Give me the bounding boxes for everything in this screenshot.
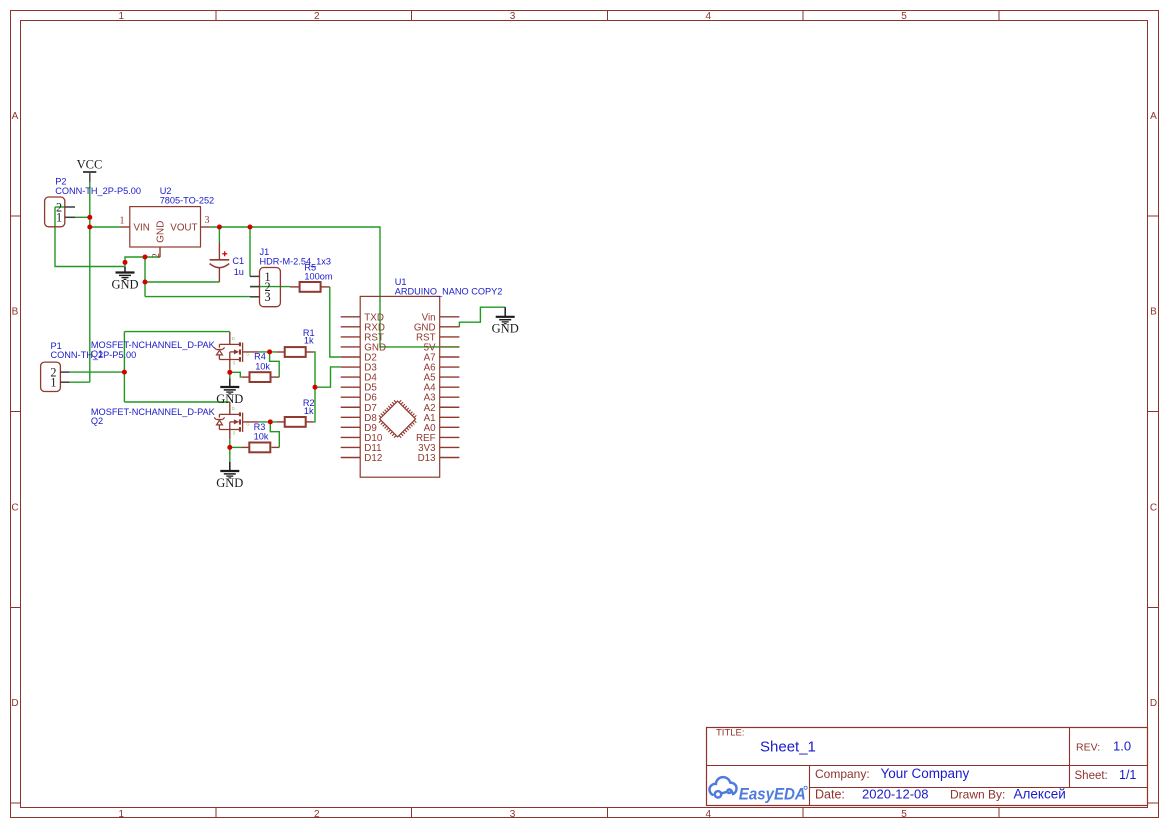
svg-text:VOUT: VOUT xyxy=(170,223,197,234)
svg-text:5: 5 xyxy=(901,11,907,22)
svg-text:D13: D13 xyxy=(418,453,437,464)
svg-text:3: 3 xyxy=(205,215,210,226)
svg-text:G: G xyxy=(246,421,249,426)
svg-text:GND: GND xyxy=(216,476,243,490)
svg-text:10k: 10k xyxy=(255,361,270,371)
svg-text:D12: D12 xyxy=(364,453,382,464)
svg-text:Sheet_1: Sheet_1 xyxy=(760,738,816,755)
svg-text:MOSFET-NCHANNEL_D-PAK: MOSFET-NCHANNEL_D-PAK xyxy=(91,340,216,350)
svg-text:R4: R4 xyxy=(254,352,266,362)
svg-text:S: S xyxy=(233,361,236,366)
svg-text:3: 3 xyxy=(510,809,516,820)
svg-text:CONN-TH_2P-P5.00: CONN-TH_2P-P5.00 xyxy=(51,350,137,360)
svg-text:5: 5 xyxy=(901,809,907,820)
svg-text:D: D xyxy=(232,336,235,341)
svg-text:B: B xyxy=(1150,307,1157,318)
svg-text:A: A xyxy=(12,111,19,122)
svg-text:GND: GND xyxy=(216,392,243,406)
svg-text:100om: 100om xyxy=(304,271,332,281)
svg-text:1: 1 xyxy=(118,11,124,22)
svg-text:Q2: Q2 xyxy=(91,416,103,426)
svg-text:3: 3 xyxy=(264,290,270,304)
svg-text:D: D xyxy=(232,406,235,411)
svg-text:GND: GND xyxy=(111,277,138,291)
svg-text:C1: C1 xyxy=(232,256,244,266)
svg-text:3: 3 xyxy=(510,11,516,22)
svg-text:1/1: 1/1 xyxy=(1119,768,1136,782)
svg-text:GND: GND xyxy=(492,322,519,336)
svg-text:1k: 1k xyxy=(304,406,314,416)
svg-text:REV:: REV: xyxy=(1076,742,1100,754)
svg-text:7805-TO-252: 7805-TO-252 xyxy=(160,196,214,206)
svg-text:1u: 1u xyxy=(234,267,244,277)
svg-text:C: C xyxy=(11,502,18,513)
svg-text:1: 1 xyxy=(56,211,62,225)
svg-text:TITLE:: TITLE: xyxy=(716,728,745,739)
svg-text:10k: 10k xyxy=(254,431,269,441)
svg-text:1k: 1k xyxy=(304,336,314,346)
svg-text:D: D xyxy=(1150,698,1157,709)
svg-text:4: 4 xyxy=(705,11,711,22)
svg-text:2: 2 xyxy=(314,11,320,22)
svg-text:CONN-TH_2P-P5.00: CONN-TH_2P-P5.00 xyxy=(55,186,141,196)
svg-text:GND: GND xyxy=(155,221,166,243)
svg-text:MOSFET-NCHANNEL_D-PAK: MOSFET-NCHANNEL_D-PAK xyxy=(91,407,216,417)
svg-text:VCC: VCC xyxy=(77,157,103,171)
svg-text:C: C xyxy=(1150,502,1157,513)
svg-text:Your Company: Your Company xyxy=(881,766,970,781)
svg-text:EasyEDA: EasyEDA xyxy=(739,785,806,803)
svg-text:Drawn By:: Drawn By: xyxy=(950,788,1005,802)
svg-text:Алексей: Алексей xyxy=(1014,787,1066,802)
svg-text:1: 1 xyxy=(118,809,124,820)
svg-text:HDR-M-2.54_1x3: HDR-M-2.54_1x3 xyxy=(260,256,331,266)
svg-text:Company:: Company: xyxy=(815,767,870,781)
svg-text:1: 1 xyxy=(120,215,125,226)
svg-text:Sheet:: Sheet: xyxy=(1075,770,1108,782)
svg-text:1: 1 xyxy=(50,376,56,390)
svg-text:VIN: VIN xyxy=(134,223,150,234)
svg-text:2020-12-08: 2020-12-08 xyxy=(862,787,929,802)
svg-text:2: 2 xyxy=(151,253,162,258)
svg-text:A: A xyxy=(1150,111,1157,122)
svg-text:D: D xyxy=(11,698,18,709)
svg-text:ARDUINO_NANO COPY2: ARDUINO_NANO COPY2 xyxy=(395,286,503,296)
svg-text:4: 4 xyxy=(705,809,711,820)
svg-text:1.0: 1.0 xyxy=(1113,739,1131,754)
svg-text:Date:: Date: xyxy=(815,788,845,802)
svg-text:B: B xyxy=(12,307,19,318)
svg-text:G: G xyxy=(246,351,249,356)
svg-text:S: S xyxy=(233,431,236,436)
svg-text:2: 2 xyxy=(314,809,320,820)
